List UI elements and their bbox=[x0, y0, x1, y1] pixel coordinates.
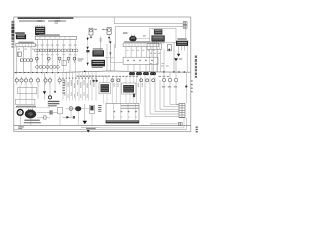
cluster connector band (dark) bbox=[106, 120, 139, 123]
vertical label bottom-center bbox=[98, 105, 101, 112]
bus junction dots bbox=[15, 71, 185, 74]
small ring terminals row bbox=[35, 57, 76, 63]
right harness verticals bbox=[164, 82, 176, 105]
right black connector block bbox=[176, 41, 188, 46]
center connector strip label bbox=[124, 41, 151, 42]
small relay box left-center bbox=[62, 60, 66, 65]
junction block J/B (black box) bbox=[16, 34, 26, 39]
bottom component interconnects bbox=[60, 109, 92, 126]
shielded wire (dashed) with arrows center bbox=[86, 37, 89, 66]
horn labels bbox=[24, 120, 41, 124]
instrument cluster box bbox=[106, 103, 139, 123]
long vertical wire right bbox=[173, 42, 175, 72]
wire from horn right bbox=[37, 110, 58, 114]
lower junction box B bbox=[16, 99, 35, 104]
bottom components label row bbox=[15, 106, 50, 108]
long bottom feed line 1 bbox=[14, 118, 186, 130]
staircase wires to right connector stack bbox=[145, 77, 179, 117]
bottom bus labels bbox=[18, 126, 24, 129]
connector terminals row below bus bbox=[15, 77, 61, 85]
small motor (dark round) bottom bbox=[75, 106, 81, 111]
right margin pin labels bbox=[191, 80, 193, 92]
wires right of relays bbox=[105, 44, 114, 71]
ignition switch assembly enclosure bbox=[150, 29, 176, 43]
right speaker outline bbox=[122, 83, 136, 94]
left drop labels bbox=[18, 49, 35, 50]
light control switch symbol bbox=[89, 28, 97, 39]
fuse F1 bbox=[18, 52, 22, 56]
connector pair 1B bbox=[183, 25, 187, 28]
right connector terminals row bbox=[162, 72, 177, 81]
wire color label row under bus bbox=[77, 76, 169, 77]
left speaker (dark) bbox=[101, 84, 110, 92]
right margin vertical text bbox=[195, 56, 197, 78]
cluster pins bbox=[113, 111, 137, 117]
wire round component to switch assembly bbox=[137, 38, 150, 40]
main relay small box bbox=[167, 45, 171, 51]
arrow component row bbox=[63, 116, 75, 119]
left speaker outline bbox=[99, 83, 110, 94]
bottom frame page arrow bbox=[87, 130, 90, 133]
bottom-right page reference text bbox=[196, 127, 198, 133]
double circle connector bottom bbox=[69, 107, 73, 111]
bottom harness bus bbox=[14, 124, 191, 126]
main harness bus bbox=[14, 71, 191, 74]
headlight control relay (dark box) bbox=[92, 50, 104, 56]
wire pin-number dashes bbox=[62, 78, 96, 79]
ground triangle bottom-center bbox=[83, 104, 88, 124]
wire drops from relay strip with inline connectors bbox=[34, 39, 78, 71]
wire labels (vertical text smudges) bbox=[64, 80, 143, 98]
right wire labels bbox=[162, 86, 177, 87]
two dark dots center bbox=[92, 80, 97, 82]
dark bar under right speaker bbox=[133, 94, 135, 98]
wires relay block to bus bbox=[128, 64, 157, 71]
bottom return line 2 bbox=[100, 118, 184, 128]
horn (dark blob) bbox=[25, 109, 36, 126]
fusible link strip label bbox=[18, 42, 33, 43]
right vertical labels bbox=[161, 65, 169, 66]
right connector stack bbox=[179, 103, 185, 117]
ignition key cylinder bbox=[102, 27, 111, 43]
page border frame bbox=[14, 17, 191, 132]
bottom sub-wire with label bbox=[81, 127, 100, 129]
wires from right connector down bbox=[179, 46, 185, 54]
pin number column bbox=[62, 80, 65, 94]
left margin system label (vertical text) bbox=[11, 21, 14, 48]
wire right edge down to bus bbox=[186, 46, 188, 72]
label above right black connector bbox=[177, 38, 186, 40]
fuse value labels row bbox=[36, 45, 77, 56]
ignition wire labels bbox=[150, 53, 164, 64]
inline connectors mid-right row bbox=[111, 79, 155, 82]
label text center-left bbox=[78, 58, 84, 61]
ignition switch upper body (hatched) bbox=[152, 28, 162, 34]
dense harness verticals center-bottom bbox=[63, 71, 140, 103]
fuse strip (main relay row) bbox=[35, 34, 76, 39]
dark inline connectors under relay block bbox=[129, 72, 155, 75]
bottom-right connector pair bbox=[150, 123, 182, 126]
far right vertical with terminal dot bbox=[185, 72, 187, 103]
ground arrow right bbox=[177, 54, 180, 57]
wire: second top feed to connector 1B bbox=[115, 27, 183, 48]
short feeder wire bbox=[110, 62, 123, 64]
ignition switch lower body (hatched) bbox=[151, 35, 164, 43]
relay box bottom bbox=[58, 107, 63, 114]
bulb in holder bbox=[90, 105, 95, 113]
switch box A bbox=[18, 88, 37, 94]
wire from key down bbox=[100, 37, 102, 51]
wires from ignition connector down bbox=[149, 49, 164, 72]
wires through switch box A bbox=[20, 85, 38, 100]
title text: 1987 TOYOTA ELECTRICAL WIRING DIAGRAM bbox=[18, 17, 74, 24]
relay block open box bbox=[123, 57, 158, 64]
multi-pin connector block above strip bbox=[35, 25, 45, 36]
strip drop labels bbox=[127, 50, 155, 51]
headlight control relay (dark box) label bbox=[93, 48, 103, 49]
connector strip below ignition switch bbox=[147, 44, 162, 50]
ground triangle lower right bbox=[174, 58, 182, 72]
second inline connector row bbox=[36, 65, 60, 68]
wire drops from fusible link strip bbox=[17, 47, 31, 73]
wire: top feed from border to connector 1A bbox=[114, 18, 183, 24]
wires strip to relay block bbox=[126, 47, 157, 58]
inline connector row (left) bbox=[20, 59, 32, 62]
second dashed wire with arrow bbox=[109, 39, 111, 63]
center connector strip bbox=[123, 43, 158, 47]
connector pair 1A bbox=[183, 22, 187, 25]
cigarette lighter (ring) bbox=[17, 110, 23, 126]
wire from top connector pair down bbox=[185, 28, 187, 38]
right speaker (dark) bbox=[123, 85, 134, 93]
label near key bbox=[123, 32, 128, 34]
text block lower-left-center bbox=[48, 101, 60, 107]
label above junction block bbox=[15, 32, 25, 34]
small component mid-bottom-left bbox=[37, 116, 50, 119]
dark terminal dot bbox=[48, 73, 56, 100]
small label right of strip bbox=[143, 35, 146, 36]
fusible link strip bbox=[16, 43, 35, 47]
dimmer relay (dark box 2) bbox=[91, 60, 105, 68]
ground arrow left-center bbox=[43, 73, 46, 100]
round component (noise filter) bbox=[129, 35, 136, 42]
